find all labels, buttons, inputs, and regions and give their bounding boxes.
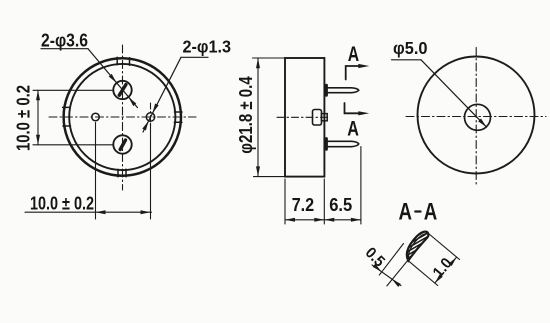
rim tab left — [63, 107, 71, 126]
slot in hole H1 — [119, 85, 126, 96]
centerline horizontal side view — [277, 116, 330, 118]
extension line middle for 7.2 and 6.5 — [323, 179, 325, 224]
centerline vertical front view — [122, 45, 124, 190]
centerline horizontal front view — [49, 116, 196, 118]
arrow 1.0 upper — [449, 257, 457, 266]
svg-text:1.0: 1.0 — [430, 255, 456, 281]
extension line right for 6.5 — [360, 147, 362, 225]
svg-text:10.0 ± 0.2: 10.0 ± 0.2 — [13, 85, 34, 151]
hole H2 (bottom mounting hole) — [113, 135, 131, 153]
label 2-phi1.3 — [183, 37, 232, 57]
arrow at hole H1 near side — [109, 74, 117, 83]
arrow 0.5 upper — [373, 264, 382, 272]
pin P2 bottom — [327, 141, 359, 146]
svg-text:A: A — [399, 198, 413, 225]
arrow phi5.0 — [478, 119, 486, 128]
svg-text:A: A — [347, 117, 359, 141]
arrow bottom dim right — [141, 210, 151, 214]
section label A bottom — [347, 117, 359, 141]
dimension line phi21.8 — [257, 58, 259, 177]
dimension text 10.0+-0.2 vertical — [13, 85, 34, 151]
arrow 7.2 right — [314, 218, 324, 222]
pin P1 top — [327, 88, 359, 93]
arrow vertical dim bottom — [36, 135, 40, 145]
svg-text:φ5.0: φ5.0 — [393, 38, 428, 58]
slot in hole H2 — [120, 140, 125, 150]
rim tab bottom — [118, 169, 126, 177]
pin cross-section oval — [393, 222, 439, 269]
pin P1 root flange — [325, 85, 328, 95]
dimension line 7.2 and 6.5 — [285, 219, 361, 221]
hole H3 (small center hole) — [92, 113, 100, 121]
svg-text:2-φ3.6: 2-φ3.6 — [41, 31, 88, 51]
centerline horizontal back view — [406, 116, 546, 118]
svg-text:6.5: 6.5 — [329, 195, 352, 215]
dimension line 1.0 — [435, 257, 457, 283]
extension line 0.5 lower — [387, 260, 408, 286]
dimension line 10.0 vertical — [37, 90, 39, 145]
front view inner circle — [69, 64, 175, 170]
extension line right for bottom dim — [150, 123, 152, 219]
centerline vertical back view — [475, 48, 477, 185]
arrow 1.0 lower — [435, 274, 443, 283]
section label A top — [348, 42, 359, 66]
arrow vertical dim top — [36, 90, 40, 100]
extension line top for vertical dim — [33, 89, 113, 91]
arrow at hole H4 far side — [142, 121, 148, 131]
dimension line 10.0 horizontal — [25, 211, 152, 213]
extension line left for bottom dim — [95, 123, 97, 220]
pin P2 root flange — [325, 139, 328, 150]
dimension text 10.0+-0.2 bottom — [30, 193, 94, 214]
arrow 6.5 left — [324, 218, 334, 222]
hole H1 (top mounting hole) — [113, 81, 131, 99]
back view center hole phi5 — [465, 104, 491, 130]
dimension text 0.5 — [362, 244, 388, 270]
section arrow top — [358, 64, 369, 68]
centerline vertical hole H4 — [150, 103, 152, 128]
extension line left for 7.2 — [284, 179, 286, 224]
leader line 2-phi3.6 — [41, 49, 138, 108]
dimension text 1.0 — [430, 255, 456, 281]
front view outer circle — [64, 58, 181, 175]
dimension text 6.5 — [329, 195, 352, 215]
arrow at hole H1 far side — [128, 97, 136, 106]
dimension text phi21.8+-0.4 — [235, 76, 256, 154]
section title A - A — [399, 198, 438, 225]
label phi5.0 — [393, 38, 428, 58]
arrow phi21.8 top — [256, 58, 260, 68]
extension line 0.5 upper — [379, 244, 403, 276]
extension line 1.0 lower — [408, 260, 438, 285]
knob tab — [322, 114, 328, 121]
side view body rectangle — [285, 58, 324, 177]
arrow bottom dim left — [96, 210, 106, 214]
arrow 6.5 right — [351, 218, 361, 222]
svg-text:0.5: 0.5 — [362, 244, 388, 270]
section mark bottom — [345, 103, 363, 113]
rim tab right — [174, 112, 182, 122]
dimension text 7.2 — [292, 195, 315, 215]
svg-text:φ21.8 ± 0.4: φ21.8 ± 0.4 — [235, 76, 256, 154]
arrow at hole H4 near side — [152, 104, 158, 114]
arrow 7.2 left — [285, 218, 295, 222]
arrow 0.5 lower — [392, 279, 401, 287]
extension line top for phi21.8 — [253, 57, 286, 59]
section mark top — [346, 66, 363, 80]
svg-text:A: A — [424, 198, 438, 225]
knob on side view — [313, 110, 322, 126]
dimension line 0.5 — [372, 265, 401, 286]
hole H4 (phi 1.3 hole) — [146, 113, 154, 121]
svg-text:7.2: 7.2 — [292, 195, 315, 215]
extension line bottom for phi21.8 — [254, 176, 286, 178]
back view circle — [418, 57, 535, 174]
label 2-phi3.6 — [41, 31, 88, 51]
rim tab top — [117, 57, 129, 65]
extension line bottom for vertical dim — [33, 144, 113, 146]
svg-text:A: A — [348, 42, 359, 66]
leader line 2-phi1.3 — [143, 57, 208, 132]
leader line phi5.0 — [392, 60, 487, 127]
section arrow bottom — [358, 111, 369, 115]
svg-text:10.0 ± 0.2: 10.0 ± 0.2 — [30, 193, 94, 214]
arrow phi21.8 bottom — [256, 166, 260, 176]
svg-text:2-φ1.3: 2-φ1.3 — [183, 37, 232, 57]
extension line 1.0 upper — [427, 233, 459, 260]
